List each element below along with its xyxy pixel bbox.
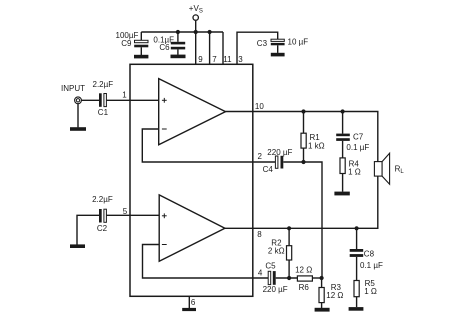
speaker RL — [374, 153, 389, 184]
svg-text:11: 11 — [223, 55, 232, 64]
node rail-C6 — [176, 30, 180, 34]
ground R5 — [349, 307, 364, 311]
wire C5 to R6 — [276, 277, 298, 279]
ground R4 — [334, 192, 349, 196]
capacitor C4 — [275, 156, 283, 169]
capacitor C1 — [99, 93, 106, 107]
svg-text:C4: C4 — [263, 165, 274, 174]
svg-text:C5: C5 — [265, 262, 276, 271]
wire C8 stems — [356, 228, 358, 249]
svg-text:7: 7 — [212, 55, 217, 64]
wire speaker to pin 8 — [225, 176, 378, 228]
svg-text:2.2µF: 2.2µF — [92, 195, 113, 204]
resistor R3 — [319, 288, 324, 303]
U1 plus — [162, 99, 167, 101]
svg-text:1 Ω: 1 Ω — [364, 287, 377, 296]
svg-text:C1: C1 — [98, 108, 109, 117]
ground pin 6 — [182, 308, 196, 311]
node C8 top — [355, 226, 359, 230]
svg-text:+VS: +VS — [189, 4, 203, 15]
capacitor C3 — [271, 39, 285, 45]
svg-text:5: 5 — [123, 207, 128, 216]
node B — [287, 276, 291, 280]
ground C9 — [134, 55, 148, 59]
capacitor C2 — [99, 209, 106, 223]
node rail-pin7 — [208, 30, 212, 34]
wire C2 to ground elbow — [77, 215, 99, 244]
resistor R5 — [354, 281, 359, 297]
svg-text:C7: C7 — [353, 132, 364, 141]
wire C6 stems — [177, 32, 179, 42]
node A — [301, 160, 305, 164]
U1 minus — [162, 128, 167, 130]
ground input — [70, 127, 86, 131]
svg-text:C2: C2 — [97, 224, 108, 233]
svg-text:R6: R6 — [299, 283, 310, 292]
svg-text:3: 3 — [238, 55, 243, 64]
svg-text:1: 1 — [122, 91, 127, 100]
wire R6 to node B — [312, 277, 321, 279]
terminal +Vs — [193, 15, 198, 20]
svg-text:C6: C6 — [159, 43, 170, 52]
svg-text:2.2µF: 2.2µF — [93, 80, 114, 89]
wire R2 stems — [288, 228, 290, 245]
svg-text:C9: C9 — [121, 39, 132, 48]
wire pin 9 — [195, 32, 197, 64]
svg-text:220 µF: 220 µF — [267, 148, 292, 157]
wire C9 stems — [140, 32, 142, 40]
resistor R1 — [301, 133, 306, 148]
opamp +/- symbols — [162, 98, 167, 245]
wire C7 stems — [342, 112, 344, 134]
wire pin 5 — [107, 214, 160, 216]
svg-text:0.1 µF: 0.1 µF — [360, 261, 383, 270]
capacitor C9 — [134, 40, 148, 47]
capacitor C6 — [171, 42, 185, 50]
wire R5 to ground — [356, 297, 358, 307]
svg-text:1 Ω: 1 Ω — [348, 167, 361, 176]
svg-text:6: 6 — [191, 298, 196, 307]
wire R3 stems — [321, 278, 323, 288]
wire input to C1 — [81, 99, 99, 101]
capacitor C7 — [336, 134, 350, 141]
svg-text:10: 10 — [255, 102, 264, 111]
ground C3 — [271, 53, 285, 57]
resistor R4 — [340, 158, 345, 174]
U2 plus — [162, 215, 167, 217]
wire C4 to node A and down to R3 — [283, 162, 322, 278]
svg-text:10 µF: 10 µF — [288, 37, 309, 46]
node C7 top — [341, 109, 345, 113]
svg-text:2 kΩ: 2 kΩ — [268, 246, 285, 255]
resistor R2 — [287, 246, 292, 260]
capacitor C5 — [268, 271, 275, 285]
IC box — [130, 64, 253, 296]
capacitor C8 — [350, 249, 364, 257]
wire pin 6 — [188, 296, 190, 308]
wire Vs drop — [195, 21, 197, 32]
wire input terminal to ground — [77, 104, 79, 128]
wire pin 11 — [222, 32, 224, 64]
wire U1 inverting loop to pin 2 — [142, 129, 275, 162]
resistor R6 — [297, 276, 312, 281]
ground C6 — [171, 55, 186, 59]
ground C2 — [70, 244, 85, 248]
svg-text:4: 4 — [258, 269, 263, 278]
wire pin 7 — [209, 32, 211, 64]
op-amp U2 — [159, 195, 225, 261]
node R6-R3 — [320, 276, 324, 280]
op-amp U1 — [159, 79, 226, 145]
node R2 top — [287, 226, 291, 230]
svg-text:8: 8 — [257, 230, 262, 239]
svg-text:12 Ω: 12 Ω — [295, 265, 312, 274]
wire R4 to ground — [342, 174, 344, 192]
wire pin 1 — [107, 99, 159, 101]
svg-text:9: 9 — [198, 55, 203, 64]
wire C3 to ground — [277, 45, 279, 53]
svg-text:INPUT: INPUT — [61, 84, 85, 93]
wire U2 inverting loop to pin 4 — [143, 245, 269, 279]
svg-text:RL: RL — [395, 164, 405, 175]
svg-text:12 Ω: 12 Ω — [326, 291, 343, 300]
U2 minus — [162, 244, 167, 246]
input terminal — [75, 97, 82, 104]
node R1 top — [301, 109, 305, 113]
wire pin 3 to C3 — [237, 32, 278, 64]
svg-text:2: 2 — [258, 152, 263, 161]
svg-text:1 kΩ: 1 kΩ — [308, 141, 325, 150]
wire pin 10 to speaker — [226, 112, 378, 162]
svg-text:0.1 µF: 0.1 µF — [346, 143, 369, 152]
wire R1 stems — [303, 112, 305, 134]
wire supply rail — [141, 31, 223, 33]
ground R3 — [315, 308, 330, 312]
svg-text:220 µF: 220 µF — [263, 285, 288, 294]
svg-text:C3: C3 — [257, 39, 268, 48]
svg-text:C8: C8 — [364, 249, 375, 258]
node rail-pin9 — [194, 30, 198, 34]
